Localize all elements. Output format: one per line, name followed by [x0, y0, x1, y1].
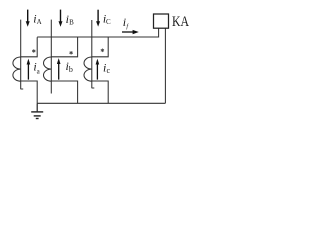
label i_b	[66, 59, 73, 74]
arrow iC (primary current phase C)	[96, 10, 100, 27]
label i_A	[33, 12, 41, 27]
svg-text:c: c	[107, 66, 111, 75]
wire: CT-C secondary top tap to bus	[92, 37, 108, 57]
arrow if (relay current)	[122, 30, 139, 34]
transformer TA-A secondary winding (coil)	[13, 57, 21, 81]
polarity mark (asterisk) phase B	[70, 51, 73, 55]
label i_a	[33, 60, 40, 76]
relay KA coil box	[154, 14, 169, 28]
wire: top bus to relay	[37, 36, 158, 38]
svg-text:a: a	[37, 68, 41, 76]
arrow ib (secondary current phase B)	[57, 58, 61, 80]
polarity mark (asterisk) phase C	[101, 49, 104, 53]
label i_f	[123, 15, 130, 30]
arrow iB (primary current phase B)	[59, 10, 63, 27]
transformer TA-B secondary winding (coil)	[43, 57, 51, 81]
svg-text:f: f	[126, 23, 129, 30]
wire: CT-B secondary top tap to bus	[51, 37, 77, 57]
svg-text:b: b	[69, 65, 73, 74]
wire primary phase C	[92, 20, 95, 88]
arrow ia (secondary current phase A)	[27, 59, 31, 80]
label i_c	[103, 61, 111, 76]
label i_C	[103, 12, 111, 26]
transformer TA-C secondary winding (coil)	[84, 57, 92, 81]
arrow ic (secondary current phase C)	[96, 59, 100, 80]
svg-text:C: C	[106, 18, 111, 26]
ground	[31, 103, 43, 118]
svg-text:KA: KA	[172, 14, 189, 30]
wire primary phase B	[50, 20, 52, 94]
label i_B	[66, 12, 75, 27]
svg-text:B: B	[69, 19, 74, 27]
wire: CT-A secondary bottom tap to ground bus	[21, 81, 38, 103]
wire: relay left lead	[158, 28, 160, 37]
polarity mark (asterisk) phase A	[32, 49, 35, 53]
wire: ground bus (return)	[37, 102, 165, 104]
arrow iA (primary current phase A)	[26, 10, 30, 27]
wire: CT-B secondary bottom tap to ground bus	[51, 81, 77, 103]
wire: CT-A secondary top tap to bus	[21, 37, 38, 57]
wire: CT-C secondary bottom tap to ground bus	[92, 81, 108, 103]
svg-text:A: A	[37, 18, 42, 26]
wire primary phase A	[21, 20, 24, 90]
wire: relay right lead	[164, 28, 166, 103]
